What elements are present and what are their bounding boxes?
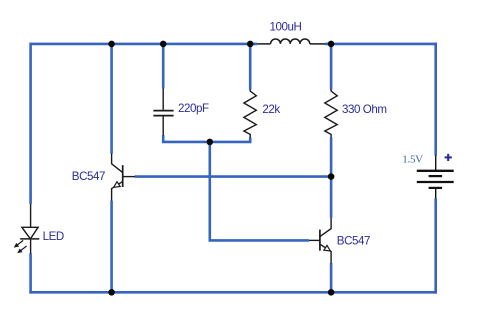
wire bottom rail xyxy=(29,291,437,294)
transistor Q2 BC547 (base on left side) xyxy=(309,218,331,264)
capacitor C1 220pF xyxy=(153,88,173,135)
wire left rail upper (to LED anode) xyxy=(29,43,32,205)
wire R2 bottom to Q2 collector xyxy=(330,137,333,218)
wire R1 22k top riser xyxy=(249,44,252,90)
node dot A (C1/R1 junction to Q2 base) xyxy=(207,139,214,146)
LED D1 xyxy=(14,204,39,254)
svg-text:LED: LED xyxy=(43,230,64,243)
node dot B (Q1 base / R2 bottom / Q2 collector) xyxy=(328,173,335,180)
wire left rail lower (LED cathode to bottom rail) xyxy=(29,253,32,293)
LED emission arrow 2 xyxy=(21,246,27,251)
svg-text:BC547: BC547 xyxy=(337,235,370,248)
wire Q2 emitter drop xyxy=(330,263,333,292)
battery BT1 xyxy=(417,155,454,198)
inductor L1 100uH xyxy=(257,39,325,44)
svg-text:220pF: 220pF xyxy=(178,102,209,115)
resistor R2 330 Ohm xyxy=(325,89,337,137)
wire top rail left segment xyxy=(31,43,258,46)
wire C1 top riser xyxy=(162,44,165,89)
svg-text:22k: 22k xyxy=(262,103,280,116)
svg-text:1.5V: 1.5V xyxy=(402,153,423,165)
wire right rail upper (to battery +) xyxy=(434,43,437,156)
transistor Q1 BC547 (base on right side) xyxy=(112,153,135,200)
LED emission arrow 1 xyxy=(17,240,23,245)
wire node A to Q2 base (vertical then horizontal) xyxy=(210,142,309,241)
wire top rail right segment xyxy=(325,43,437,46)
node dot top rail / Q1 collector xyxy=(108,41,115,48)
node dot bottom rail / Q1 emitter xyxy=(108,289,115,296)
wire R2 330 top riser xyxy=(330,44,333,90)
wire Q1 emitter drop xyxy=(110,201,113,293)
wire Q1 collector riser xyxy=(110,44,113,154)
wire C1 bottom to node A horizontal xyxy=(163,135,250,142)
resistor R1 22k xyxy=(244,89,256,137)
node dot top rail / L1 left + R1 xyxy=(247,41,254,48)
node dot top rail / L1 right + R2 xyxy=(328,41,335,48)
wire Q1 base to node B horizontal xyxy=(135,175,331,178)
svg-text:330 Ohm: 330 Ohm xyxy=(342,103,387,116)
node dot bottom rail / Q2 emitter xyxy=(328,289,335,296)
wire right rail lower (battery - to bottom rail) xyxy=(434,198,437,293)
node dot top rail / C1 xyxy=(160,41,167,48)
svg-text:100uH: 100uH xyxy=(270,21,302,34)
svg-text:BC547: BC547 xyxy=(72,170,105,183)
battery plus sign xyxy=(445,154,452,161)
